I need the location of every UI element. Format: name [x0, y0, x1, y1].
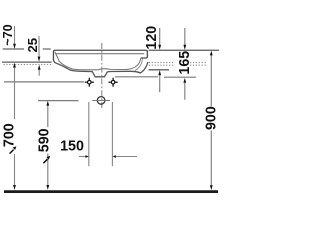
centerline through drain	[101, 43, 103, 108]
dim line 700 lower	[14, 154, 16, 185]
svg-text:700: 700	[2, 123, 18, 147]
dim arrow 900 up	[210, 51, 213, 56]
dim line 165 lower shaft	[184, 83, 186, 100]
dim line 590 lower	[47, 154, 49, 186]
dim line 120 upper shaft	[159, 28, 161, 45]
hidden dotted row 2 right b	[190, 64, 206, 66]
svg-text:120: 120	[144, 26, 160, 50]
basin rim inner edge line	[55, 53, 144, 55]
basin bowl outer underside	[53, 59, 147, 77]
reference line L1 left segment	[3, 48, 24, 50]
dim arrow 900 down	[210, 185, 213, 190]
dim arrow 165 up	[183, 78, 186, 83]
fixing hole cross left	[85, 78, 94, 87]
svg-text:25: 25	[25, 38, 40, 53]
leader arrow 700	[10, 150, 14, 154]
hidden dotted row 2 right	[149, 64, 175, 66]
dim arrow 25 down	[38, 57, 41, 62]
drain height line y100.6	[38, 100, 78, 102]
svg-text:150: 150	[60, 139, 84, 155]
drain level tick top of 590	[47, 106, 49, 128]
hidden dotted line left	[4, 64, 54, 66]
dim arrow 120 up	[158, 70, 161, 75]
svg-text:590: 590	[36, 128, 52, 152]
dim arrow 165 down	[183, 45, 186, 50]
dim line 25 lower shaft	[38, 70, 40, 76]
fixing level line y77.2	[164, 76, 196, 78]
dim arrow ~70 down	[13, 44, 16, 49]
rim level solid line left	[2, 61, 52, 63]
reference line L1 right segment	[43, 48, 51, 50]
dim arrow 700 up	[13, 63, 16, 68]
dim line 900 upper	[210, 55, 212, 107]
basin bowl inner line front diagonal	[55, 52, 141, 70]
dim arrow 120 down	[158, 45, 161, 50]
dim arrow 25 lower up	[38, 65, 41, 70]
dim line 900 lower	[210, 131, 212, 186]
hidden dotted row 1 right b	[190, 62, 206, 64]
basin back wall second sweep line	[135, 59, 143, 71]
fixing hole cross right	[109, 78, 118, 87]
top reference line L0 right	[149, 49, 219, 51]
drain circle	[97, 97, 105, 105]
dim line ~70 shaft	[14, 26, 16, 44]
dim arrow 590 up	[46, 101, 49, 106]
dim line 150 right shaft	[116, 156, 137, 158]
svg-text:~70: ~70	[1, 24, 15, 45]
hidden line y76.8	[115, 76, 158, 78]
fixing level line left y82	[4, 81, 84, 83]
basin outer rim and back block	[53, 50, 147, 60]
dim line 25 shaft	[38, 36, 40, 57]
dim arrow 700 down	[13, 185, 16, 190]
drain crosshair horizontal	[92, 100, 110, 102]
extension line 150 right	[111, 102, 113, 166]
dim line 120 lower shaft	[159, 75, 161, 92]
svg-text:165: 165	[177, 51, 193, 75]
dim arrow 150 right-pointing	[85, 155, 88, 158]
dim arrow 590 down	[46, 185, 49, 190]
hidden dotted row 1 right	[149, 62, 175, 64]
extension line 150 left	[88, 102, 90, 166]
dim line 165 upper shaft	[184, 28, 186, 45]
tap platform line y70	[149, 69, 169, 71]
svg-text:900: 900	[204, 106, 220, 130]
floor line	[4, 190, 218, 193]
dim arrow 150 left-pointing	[113, 155, 116, 158]
dim line 700 upper	[14, 67, 16, 119]
leader arrow 590	[43, 159, 47, 163]
dim line 150 left shaft	[79, 156, 86, 158]
